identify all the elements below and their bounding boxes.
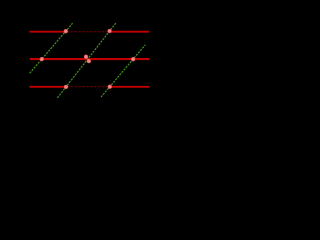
line b (middle parallel line, bright full length) bbox=[30, 58, 150, 60]
segment CD (dark red dashed part of bottom line between intersections) bbox=[67, 86, 110, 88]
line c (bottom parallel line, left bright segment) bbox=[30, 86, 67, 88]
line c (bottom parallel line, right bright segment) bbox=[110, 86, 150, 88]
line a (top parallel line, left bright segment) bbox=[30, 31, 67, 33]
point D6 (middle line ∩ g3) bbox=[131, 57, 135, 61]
segment AB (dark red dashed part of top line between intersections) bbox=[67, 31, 110, 33]
transversal g3 (green dashed, through D8 and D6) bbox=[101, 45, 145, 97]
point D2 (top line ∩ g2) bbox=[108, 29, 112, 33]
point D7 (bottom line ∩ g2) bbox=[64, 85, 68, 89]
point D5 (lower-right of middle crossing) bbox=[87, 59, 91, 63]
point D3 (middle line ∩ g1) bbox=[40, 57, 44, 61]
point D4 (upper-left of middle crossing) bbox=[84, 55, 88, 59]
point D8 (bottom line ∩ g3) bbox=[108, 85, 112, 89]
line a (top parallel line, right bright segment) bbox=[110, 31, 150, 33]
transversal g2 (green dashed, through D7, middle crossing, D2) bbox=[57, 22, 116, 98]
point D1 (top line ∩ g1) bbox=[64, 29, 68, 33]
transversal g1 (green dashed, through D3 and D1) bbox=[30, 23, 73, 73]
